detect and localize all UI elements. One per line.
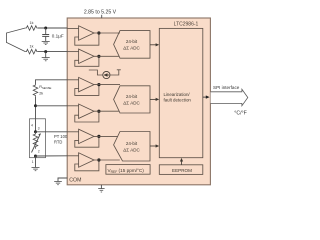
svg-text:EEPROM: EEPROM	[172, 168, 192, 173]
svg-text:1: 1	[32, 160, 34, 164]
svg-text:COM: COM	[69, 177, 81, 183]
wire Rsense top to IC (buffer3 input)	[36, 80, 68, 85]
wire R2 to IC	[38, 51, 68, 53]
svg-text:1k: 1k	[30, 45, 34, 49]
wire node E to IC (buffer6 input)	[36, 155, 68, 157]
svg-text:ΔΣ ADC: ΔΣ ADC	[123, 101, 140, 106]
EEPROM block	[159, 165, 203, 175]
ground under C1	[42, 41, 50, 44]
arrow EEPROM to linearization	[180, 158, 183, 165]
node B junction dot	[44, 50, 47, 53]
node C junction dot (Rsense bottom)	[34, 104, 37, 107]
svg-text:RTD: RTD	[54, 139, 62, 144]
arrow ADC2 to linearization	[150, 98, 159, 101]
svg-text:SPI interface: SPI interface	[213, 85, 240, 90]
arrow ADC1 to linearization	[150, 43, 159, 46]
svg-text:°C/°F: °C/°F	[234, 111, 247, 117]
wire node D to IC (buffer5 input)	[36, 131, 68, 133]
SPI block arrow	[211, 89, 248, 106]
degC/degF label	[234, 111, 247, 117]
ADC2 24-bit delta-sigma	[114, 86, 150, 113]
linearization / fault detection block	[159, 28, 203, 157]
svg-text:Linearization/: Linearization/	[164, 92, 191, 97]
label LTC2986-1	[174, 21, 199, 27]
node D junction dot (RTD top sense)	[34, 130, 37, 133]
svg-text:24-bit: 24-bit	[126, 141, 138, 146]
svg-text:fault detection: fault detection	[164, 98, 192, 103]
supply label 2.85 to 5.25 V	[84, 10, 117, 16]
capacitor C1 0.1uF	[42, 28, 64, 41]
resistor R2 1k	[25, 45, 38, 54]
svg-text:1k: 1k	[30, 21, 34, 25]
svg-text:ΔΣ ADC: ΔΣ ADC	[123, 148, 140, 153]
node A junction dot	[44, 27, 47, 30]
wire COM to ground	[58, 178, 67, 181]
resistor Rsense 2k	[33, 84, 51, 96]
pin 2 label	[38, 149, 40, 153]
arrow ADC3 to linearization	[150, 144, 159, 147]
wire node C to IC (buffer4 input)	[36, 105, 68, 107]
ground under IC bottom	[98, 185, 104, 192]
resistor R1 1k	[25, 21, 38, 30]
wire Rsense bottom to RTD	[35, 96, 37, 132]
ground under RTD	[32, 168, 40, 171]
svg-text:LTC2986-1: LTC2986-1	[174, 21, 199, 27]
op-amp buffer A5	[67, 129, 117, 147]
ground under node B	[42, 52, 50, 61]
RTD PT100 resistor element	[32, 132, 68, 153]
svg-text:4: 4	[31, 123, 33, 127]
svg-text:0.1µF: 0.1µF	[52, 33, 64, 38]
svg-text:24-bit: 24-bit	[126, 94, 138, 99]
pin 1 label	[32, 160, 34, 164]
op-amp buffer A2	[67, 49, 119, 66]
svg-text:24-bit: 24-bit	[126, 39, 138, 44]
node E junction dot (RTD bottom sense)	[34, 155, 37, 158]
wire RTD to ground	[35, 156, 37, 167]
svg-text:2k: 2k	[39, 91, 43, 95]
op-amp buffer A3	[67, 77, 120, 95]
pin 4 label	[31, 123, 33, 127]
op-amp buffer A6	[67, 153, 119, 171]
svg-text:RSENSE: RSENSE	[39, 85, 51, 90]
wire R1 to IC	[38, 27, 68, 29]
ADC3 24-bit delta-sigma	[114, 132, 150, 162]
Vref block	[106, 165, 150, 175]
SPI interface label	[213, 85, 240, 90]
op-amp buffer A4	[67, 104, 119, 122]
ADC1 24-bit delta-sigma	[114, 31, 150, 59]
wire supply stub	[101, 15, 103, 18]
pin 3 label	[38, 126, 40, 130]
arrow linearization to SPI pin	[203, 95, 210, 98]
thermocouple input bracket	[6, 28, 25, 52]
RTD package box	[30, 119, 46, 158]
svg-text:2.85 to 5.25 V: 2.85 to 5.25 V	[84, 10, 117, 16]
svg-text:ΔΣ ADC: ΔΣ ADC	[123, 46, 140, 51]
svg-text:2: 2	[38, 149, 40, 153]
ground at COM	[54, 182, 62, 185]
op-amp buffer A1	[67, 26, 120, 45]
svg-text:PT 100: PT 100	[54, 134, 68, 139]
svg-text:VREF (15 ppm/°C): VREF (15 ppm/°C)	[108, 168, 145, 174]
COM pin label	[69, 177, 81, 183]
current source I1	[89, 70, 121, 79]
IC U1 LTC2986-1 body	[67, 18, 210, 185]
svg-text:3: 3	[38, 126, 40, 130]
